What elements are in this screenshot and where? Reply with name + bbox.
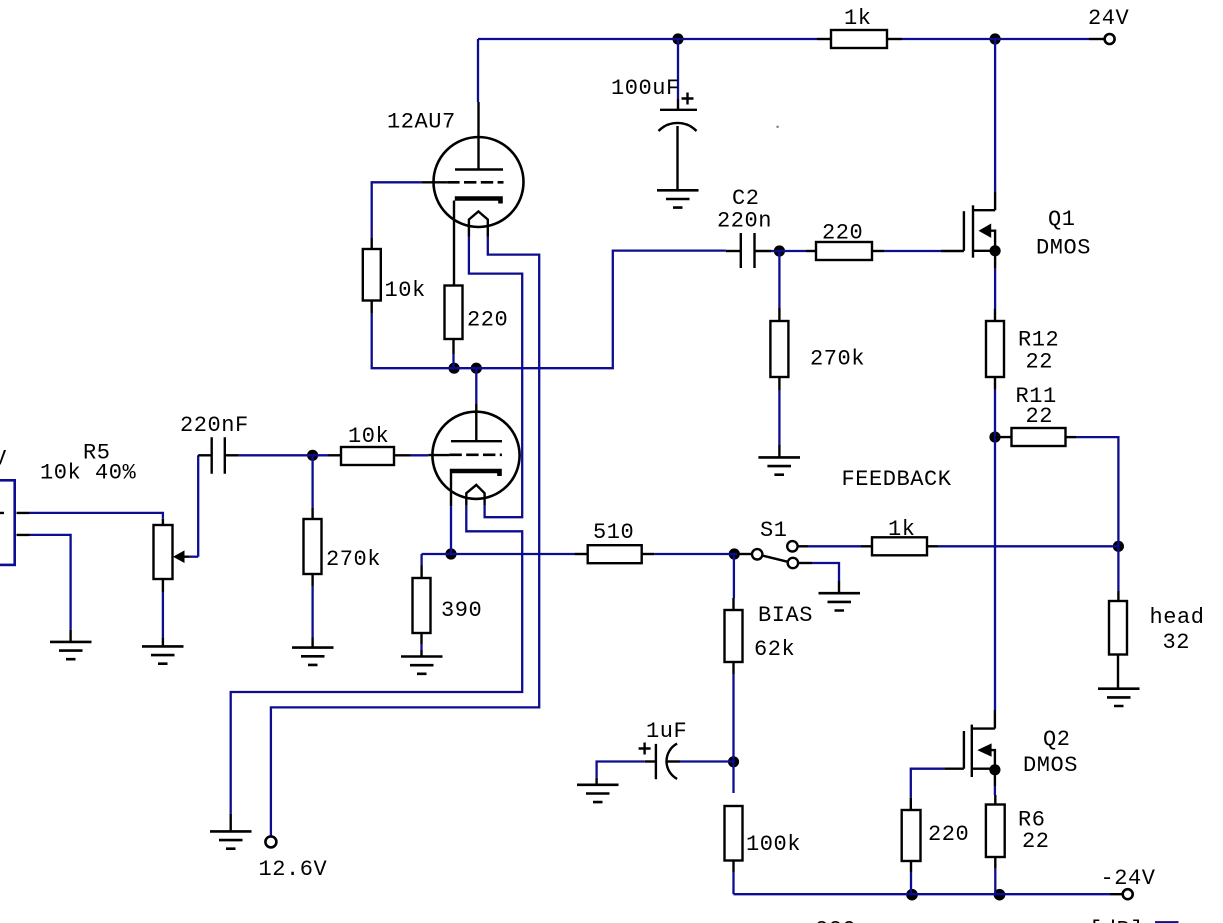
wire: rail down to Q1 drain: [994, 39, 996, 191]
svg-text:DMOS: DMOS: [1023, 753, 1078, 778]
tube U1 heater: [469, 212, 488, 237]
wire: Q1 source to R12: [994, 268, 996, 309]
input box pin stubs: [0, 513, 30, 535]
wire: 220nF right to input node: [239, 454, 328, 456]
wire: cathode node to 510: [451, 553, 574, 555]
svg-text:DMOS: DMOS: [1036, 236, 1091, 261]
junction dot: R11 / head / 1k feedback: [1113, 541, 1124, 552]
capacitor 220nF: [212, 437, 225, 474]
ground input box pin2: [69, 630, 71, 642]
wire: 270k bottom to ground: [778, 390, 780, 445]
ground under 270k C2: [758, 457, 800, 474]
svg-text:510: 510: [593, 520, 634, 545]
svg-text:100k: 100k: [746, 832, 801, 857]
resistor R11 22: [1012, 428, 1066, 446]
resistor R6 22: [986, 805, 1005, 858]
wire: wiper stub: [190, 556, 199, 558]
ground under 1uF: [577, 785, 619, 802]
junction dot: 62k / 1uF / 100k bias node: [728, 756, 739, 767]
svg-text:390: 390: [441, 598, 482, 623]
ground under pot: [162, 637, 164, 646]
svg-text:12AU7: 12AU7: [387, 110, 456, 135]
resistor 1k feedback: [872, 537, 927, 555]
junction dot: -24V rail / R6: [994, 889, 1006, 901]
ground heater net: [229, 814, 231, 832]
wire: tube2 anode drop: [475, 368, 477, 404]
wire: 220 cathode resistor to node A: [452, 354, 454, 368]
svg-text:-24V: -24V: [1101, 866, 1156, 891]
svg-text:10k: 10k: [385, 278, 426, 303]
wire: rail down to 100uF: [677, 39, 679, 99]
tube U1 plate: [455, 102, 503, 170]
svg-text:22: 22: [1026, 404, 1054, 429]
wire: 270k to ground: [311, 586, 313, 638]
svg-text:220: 220: [928, 822, 969, 847]
junction dot: 24V rail / Q1 drain tap: [990, 33, 1001, 44]
tube U2 grid (dashed) with lead: [449, 453, 502, 456]
transistor Q1 DMOS: [963, 211, 965, 251]
wire: 220 bottom to rail: [910, 872, 912, 894]
svg-text:10k: 10k: [348, 424, 389, 449]
svg-text:1k: 1k: [844, 6, 872, 31]
wire: input box pin2 to ground: [30, 535, 71, 630]
wire: 220 to Q1 gate: [884, 250, 941, 252]
resistor 510: [588, 545, 642, 563]
transistor Q2 DMOS: [963, 731, 965, 769]
wire: 100k to -24V rail: [732, 872, 734, 894]
wire: heater net3 tube2-left to ground: [231, 505, 523, 814]
potentiometer R5 body: [154, 525, 173, 579]
capacitor C2 220n: [741, 233, 755, 268]
wire: input node down to 270k: [311, 455, 313, 508]
svg-text:62k: 62k: [754, 637, 795, 662]
resistor 10k U2 grid: [341, 447, 394, 465]
ground under head: [1098, 689, 1140, 706]
wire: 1k feedback left to S1: [808, 545, 861, 547]
svg-text:1k: 1k: [888, 517, 916, 542]
wire: C2 to 220 gate resistor: [771, 250, 806, 252]
wire: pot bottom to ground: [162, 592, 164, 637]
wire: 510 to S1 node: [654, 553, 737, 555]
wire: R6 bottom to rail: [994, 868, 996, 894]
svg-text:270k: 270k: [326, 547, 381, 572]
svg-text:FEEDBACK: FEEDBACK: [842, 467, 952, 492]
bottom edge clipped wire fragment: [1155, 921, 1179, 923]
wire: R11 right to head node: [1076, 437, 1118, 546]
resistor 10k grid-leak U1: [363, 249, 381, 301]
wire: R12 to R11 node: [994, 389, 996, 437]
switch S1: [740, 553, 753, 555]
svg-text:C2: C2: [732, 186, 760, 211]
junction dot: node A / tube2 anode: [471, 363, 482, 374]
svg-text:22: 22: [1026, 350, 1054, 375]
svg-text:100uF: 100uF: [611, 76, 680, 101]
wire: pot wiper riser to 220nF: [197, 455, 199, 556]
wire: -24V rail bottom: [734, 893, 1111, 895]
wire: cathode node row: [422, 553, 451, 555]
wire: Q2 source to R6: [994, 786, 996, 795]
resistor 270k input: [304, 519, 322, 574]
wire: S1 throw to ground: [812, 563, 839, 581]
capacitor 100uF polarized: [677, 99, 679, 110]
junction dot: Q2 source / R6: [989, 764, 1000, 775]
resistor 220 Q1 gate: [816, 242, 872, 260]
resistor 62k BIAS: [725, 610, 743, 662]
wire: 24V rail right of 1k: [902, 38, 1089, 40]
wire: S1 node down to 62k: [733, 554, 735, 598]
tube U1 envelope 12AU7a: [434, 137, 524, 227]
junction dot: tube2 cathode node: [445, 548, 456, 559]
terminal 24V: [1089, 38, 1105, 40]
capacitor 1uF polarized: [655, 744, 657, 779]
junction dot: 24V rail / 100uF tap: [672, 33, 683, 44]
wire: 1uF right to bias node: [680, 760, 735, 762]
wire: R11 node down to Q2 drain: [994, 437, 996, 710]
resistor 220 cathode U1: [445, 286, 463, 340]
tube U2 plate: [451, 404, 502, 441]
wire: 390 lower lead gap: [420, 644, 422, 650]
svg-text:220: 220: [467, 308, 508, 333]
wire: 390 branch: [420, 554, 422, 566]
tube U2 envelope 12AU7b: [432, 412, 519, 499]
svg-text:24V: 24V: [1088, 6, 1130, 31]
svg-text:22: 22: [1022, 829, 1050, 854]
wire: head node down: [1117, 546, 1119, 591]
wire: 1k feedback right to head node: [938, 545, 1118, 547]
svg-text:[dB]: [dB]: [1089, 918, 1144, 923]
tube U2 cathode: [450, 471, 500, 476]
svg-text:1uF: 1uF: [646, 719, 687, 744]
junction dot: Q1 source / R12: [990, 245, 1001, 256]
wire: 24V rail top: [478, 38, 817, 40]
wire: tube2 cathode drop: [450, 506, 452, 554]
tube U1 grid (dashed) with lead: [447, 181, 503, 184]
ground under 270k input: [292, 648, 334, 665]
terminal 12.6V: [265, 836, 276, 847]
wire: bias node to 100k: [732, 762, 734, 793]
wire: rail down to tube1 anode: [477, 39, 479, 102]
svg-text:270k: 270k: [810, 347, 865, 372]
ground under 390: [401, 657, 443, 674]
resistor head 32: [1109, 601, 1127, 655]
wire: tube1 grid to 10k: [372, 182, 422, 238]
wire: node A to C2 riser: [476, 251, 726, 369]
ground under 100uF: [657, 190, 699, 207]
junction dot: C2 out / 220 gate / 270k: [774, 245, 785, 256]
junction dot: R12 / R11 / Q2 drain: [989, 432, 1000, 443]
ground under S1: [819, 593, 861, 610]
junction dot: 510 / S1 / 62k: [729, 548, 740, 559]
resistor 270k (C2 bias): [770, 321, 788, 377]
input connector box (cut off at left): [0, 480, 15, 565]
wire: Q2 gate to 220: [911, 769, 945, 798]
svg-text:220n: 220n: [717, 209, 772, 234]
resistor 100k: [725, 806, 743, 861]
junction dot: -24V rail / 220: [906, 889, 918, 901]
resistor R12 22: [986, 321, 1004, 377]
svg-text:head: head: [1150, 605, 1205, 630]
junction dot: 220nF / 10k / 270k input node: [307, 450, 318, 461]
svg-text:Q1: Q1: [1048, 207, 1076, 232]
resistor 390: [413, 578, 431, 633]
junction dot: node A (10k grid-leak / 220 cathode): [449, 363, 460, 374]
resistor 1k (24V rail): [831, 30, 887, 48]
svg-text:10k 40%: 10k 40%: [40, 461, 137, 486]
svg-text:220: 220: [815, 918, 856, 923]
svg-text:32: 32: [1163, 630, 1191, 655]
tube U1 cathode lead: [453, 201, 455, 286]
tube U2 heater: [466, 485, 484, 505]
wire: heater net2 tube1-right to 12.6V: [271, 237, 539, 837]
wire: input box pin1 to pot top: [30, 513, 163, 519]
svg-text:Q2: Q2: [1043, 727, 1071, 752]
svg-text:V: V: [0, 447, 7, 472]
stray dot artifact: [776, 126, 779, 129]
wire: 62k to bias node: [732, 674, 734, 762]
resistor 220 Q2 gate: [902, 810, 921, 861]
svg-text:S1: S1: [760, 518, 788, 543]
wire: 10k bottom to node A: [372, 313, 454, 368]
tube U1 cathode: [455, 199, 501, 204]
tube U2 cathode lead: [450, 473, 452, 506]
svg-text:BIAS: BIAS: [758, 603, 813, 628]
wire: input node to 10k: [411, 454, 428, 456]
terminal -24V: [1110, 893, 1123, 895]
wire: C2 node down to 270k: [778, 251, 780, 308]
potentiometer R5 wiper arrow: [184, 556, 190, 558]
svg-text:12.6V: 12.6V: [259, 857, 328, 882]
wire: heater net1 tube1-left to tube2-right: [469, 237, 522, 518]
svg-text:220nF: 220nF: [180, 413, 249, 438]
wire: node A across: [454, 367, 476, 369]
svg-text:220: 220: [822, 221, 863, 246]
wire: 1uF left to ground: [597, 762, 645, 778]
